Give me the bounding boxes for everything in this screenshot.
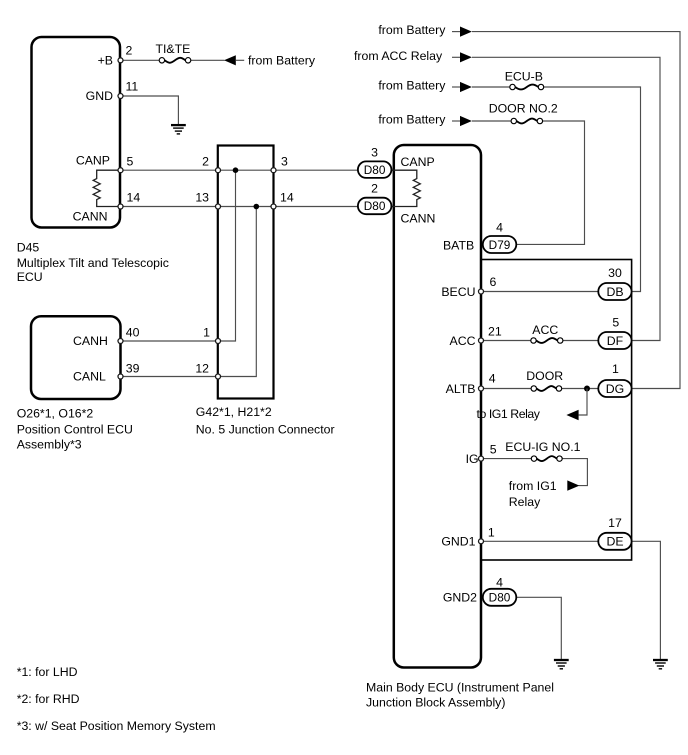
ground symbol (DE) <box>653 660 668 669</box>
svg-text:from Battery: from Battery <box>378 23 446 37</box>
node junction dot on ALTB wire <box>584 386 590 392</box>
svg-text:5: 5 <box>612 315 619 329</box>
svg-text:No. 5 Junction Connector: No. 5 Junction Connector <box>196 423 335 437</box>
svg-text:Relay: Relay <box>509 495 541 509</box>
svg-text:DE: DE <box>606 535 623 549</box>
svg-text:DF: DF <box>607 334 624 348</box>
wire from Battery line 4 through fuse DOOR NO.2 to BATB <box>378 112 584 244</box>
svg-text:Assembly*3: Assembly*3 <box>17 438 82 452</box>
svg-text:from Battery: from Battery <box>378 112 446 126</box>
pin junction 12 <box>195 361 220 379</box>
svg-text:O26*1, O16*2: O26*1, O16*2 <box>17 407 94 421</box>
svg-text:2: 2 <box>202 154 209 168</box>
pin Main Body ECU 5 (IG) <box>466 442 497 466</box>
svg-text:21: 21 <box>488 325 502 339</box>
svg-text:IG: IG <box>466 452 479 466</box>
svg-text:CANP: CANP <box>76 153 110 167</box>
svg-text:1: 1 <box>203 326 210 340</box>
svg-text:D80: D80 <box>364 163 386 177</box>
svg-text:BECU: BECU <box>441 285 475 299</box>
wire ACC pin21 to fuse ACC to DF <box>481 323 599 343</box>
wire from Battery line 3 through fuse ECU-B to DB <box>378 79 640 292</box>
svg-text:DB: DB <box>606 285 623 299</box>
svg-text:from IG1: from IG1 <box>509 479 557 493</box>
wire branch to IG1 Relay with arrow (pointing left) <box>477 389 588 422</box>
svg-text:G42*1, H21*2: G42*1, H21*2 <box>196 405 272 419</box>
svg-text:5: 5 <box>490 442 497 456</box>
svg-text:TI&TE: TI&TE <box>156 42 191 56</box>
svg-text:CANL: CANL <box>73 370 106 384</box>
svg-text:14: 14 <box>127 190 141 204</box>
svg-text:4: 4 <box>489 371 496 385</box>
box Position Control ECU Assembly <box>17 316 133 451</box>
svg-text:Main Body ECU (Instrument Pane: Main Body ECU (Instrument Panel <box>366 681 554 695</box>
box D45 Multiplex Tilt and Telescopic ECU <box>17 37 169 284</box>
svg-text:4: 4 <box>496 576 503 590</box>
svg-text:DOOR NO.2: DOOR NO.2 <box>489 102 558 116</box>
pin D45 11 (GND) <box>86 80 139 104</box>
svg-text:BATB: BATB <box>443 239 474 253</box>
pin Position ECU 40 (CANH) <box>73 326 140 348</box>
svg-text:3: 3 <box>371 146 378 160</box>
wire from ACC Relay line 2 to DF <box>354 49 660 341</box>
wire +B from D45 pin 2 to fuse TI&TE <box>121 59 160 61</box>
svg-text:ECU: ECU <box>17 270 43 284</box>
wire CANP junction pin3 to D80 oval <box>274 169 358 171</box>
connector oval DE <box>598 516 631 550</box>
node junction dot on CANP wire <box>233 167 239 173</box>
svg-text:DOOR: DOOR <box>526 369 563 383</box>
wire GND from D45 pin 11 to ground <box>121 96 179 124</box>
pin junction 13 <box>195 190 220 209</box>
wire ALTB pin4 to fuse DOOR to DG <box>481 369 599 391</box>
box instrument panel junction block connector strip <box>481 260 632 561</box>
svg-text:ECU-IG NO.1: ECU-IG NO.1 <box>505 440 580 454</box>
svg-text:39: 39 <box>126 361 140 375</box>
svg-text:GND: GND <box>86 89 113 103</box>
svg-text:6: 6 <box>490 275 497 289</box>
svg-text:30: 30 <box>608 266 622 280</box>
svg-text:DG: DG <box>606 382 624 396</box>
ground symbol (D45 GND) <box>171 125 186 134</box>
svg-text:to IG1 Relay: to IG1 Relay <box>477 407 541 421</box>
pin D45 2 (+B) <box>98 44 133 68</box>
fuse ECU-B <box>505 70 544 90</box>
svg-text:CANP: CANP <box>401 155 435 169</box>
connector oval DG <box>598 362 631 397</box>
svg-text:D45: D45 <box>17 241 40 255</box>
wire CANH Position ECU pin40 to junction pin1 <box>121 340 219 342</box>
pin Main Body ECU 4 (ALTB) <box>446 371 496 396</box>
connector oval DF <box>598 315 631 349</box>
svg-text:*1: for LHD: *1: for LHD <box>17 665 78 679</box>
svg-text:2: 2 <box>371 182 378 196</box>
wire CANP D45 pin5 to junction pin2 <box>121 169 219 171</box>
wire junction connector internal CANP branch to pin 1 <box>218 170 236 341</box>
wire GND1 pin1 to DE <box>481 540 599 542</box>
svg-text:ALTB: ALTB <box>446 382 476 396</box>
pin junction 2 <box>202 154 220 172</box>
connector oval D80 (CANP) <box>358 146 392 178</box>
wire from Battery line 1 to DG <box>378 23 680 389</box>
arrow from Battery (TI&TE row, pointing left) <box>224 54 316 68</box>
svg-text:CANN: CANN <box>401 212 436 226</box>
wire CANP junction pin2 to pin3 <box>218 169 274 171</box>
svg-text:ECU-B: ECU-B <box>505 70 543 84</box>
wire IG pin5 through fuse ECU-IG NO.1 <box>481 440 587 486</box>
ground symbol (GND2) <box>554 660 569 669</box>
svg-text:1: 1 <box>488 525 495 539</box>
pin Position ECU 39 (CANL) <box>73 361 140 383</box>
svg-text:ACC: ACC <box>450 334 476 348</box>
resistor R (terminating, inside D45) <box>93 170 120 206</box>
pin Main Body ECU 1 (GND1) <box>441 525 495 548</box>
box No. 5 Junction Connector <box>196 146 335 437</box>
svg-text:3: 3 <box>281 154 288 168</box>
svg-text:2: 2 <box>126 44 133 58</box>
svg-text:ACC: ACC <box>532 323 558 337</box>
svg-text:from Battery: from Battery <box>248 54 316 68</box>
pin Main Body ECU 21 (ACC) <box>450 325 502 348</box>
wire CANN D45 pin14 to junction pin13 <box>121 206 219 208</box>
svg-text:4: 4 <box>496 221 503 235</box>
svg-text:14: 14 <box>280 190 294 204</box>
svg-text:13: 13 <box>195 190 209 204</box>
svg-text:Position Control ECU: Position Control ECU <box>17 423 133 437</box>
fuse DOOR NO.2 <box>489 102 558 124</box>
box Main Body ECU <box>366 145 554 710</box>
wire CANN junction pin13 to pin14 <box>218 206 274 208</box>
wire CANN junction pin14 to D80 oval <box>274 206 358 208</box>
resistor (terminating, inside Main Body ECU) <box>392 170 420 206</box>
connector oval D80 (CANN) <box>358 182 392 215</box>
wire junction connector internal CANN branch to pin 12 <box>218 207 256 377</box>
svg-text:17: 17 <box>608 516 622 530</box>
wire BECU pin6 to DB <box>481 291 599 293</box>
svg-text:1: 1 <box>612 362 619 376</box>
pin junction 1 <box>203 326 220 344</box>
svg-text:D80: D80 <box>489 591 511 605</box>
svg-text:Junction Block Assembly): Junction Block Assembly) <box>366 696 505 710</box>
wire CANL Position ECU pin39 to junction pin12 <box>121 376 219 378</box>
svg-text:D80: D80 <box>364 199 386 213</box>
arrow from IG1 Relay (pointing right) <box>509 479 580 509</box>
wire DE to ground <box>632 541 661 659</box>
svg-text:*3: w/ Seat Position Memory Sy: *3: w/ Seat Position Memory System <box>17 719 216 733</box>
connector oval D80 (GND2) <box>483 576 517 606</box>
svg-text:Multiplex Tilt and Telescopic: Multiplex Tilt and Telescopic <box>17 256 169 270</box>
svg-text:+B: +B <box>98 54 113 68</box>
connector oval DB <box>598 266 631 300</box>
svg-text:11: 11 <box>126 80 139 94</box>
svg-text:from Battery: from Battery <box>378 79 446 93</box>
wire GND2 oval D80 to ground <box>516 597 561 659</box>
pin Main Body ECU 6 (BECU) <box>441 275 496 299</box>
pin D45 14 (CANN) <box>73 190 141 223</box>
svg-text:CANH: CANH <box>73 334 108 348</box>
svg-text:from ACC Relay: from ACC Relay <box>354 49 443 63</box>
svg-text:12: 12 <box>195 361 209 375</box>
svg-text:GND2: GND2 <box>443 591 477 605</box>
pin junction 14 <box>271 190 294 209</box>
node junction dot on CANN wire <box>253 204 259 210</box>
svg-text:5: 5 <box>127 154 134 168</box>
svg-text:GND1: GND1 <box>441 535 475 549</box>
svg-text:*2: for RHD: *2: for RHD <box>17 692 80 706</box>
fuse TI&TE <box>156 42 225 63</box>
svg-text:40: 40 <box>126 326 140 340</box>
connector oval D79 (BATB) <box>483 221 517 254</box>
svg-text:D79: D79 <box>489 238 511 252</box>
pin junction 3 <box>271 154 288 172</box>
svg-text:CANN: CANN <box>73 210 108 224</box>
pin D45 5 (CANP) <box>76 153 134 172</box>
